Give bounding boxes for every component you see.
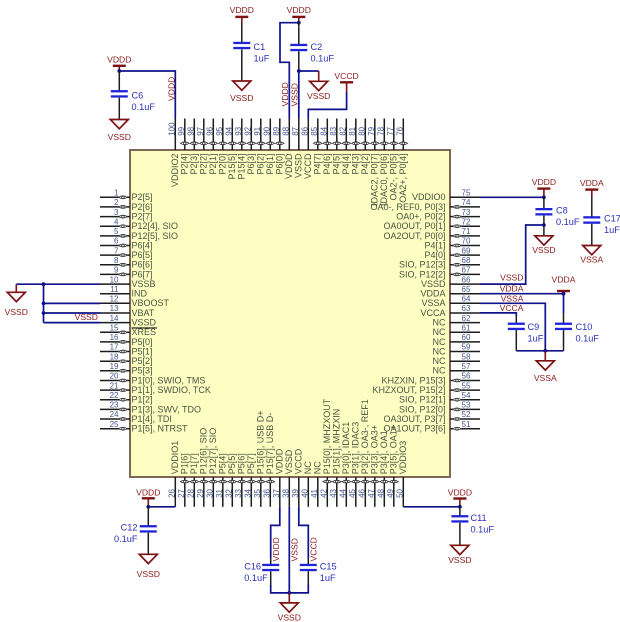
svg-text:57: 57 (462, 362, 471, 371)
svg-text:P6[3]: P6[3] (246, 154, 256, 175)
svg-text:P6[4]: P6[4] (132, 240, 153, 250)
svg-text:C8: C8 (556, 206, 568, 216)
svg-text:29: 29 (196, 488, 205, 497)
power VDDD (above C1) (230, 5, 254, 23)
svg-text:VCCD: VCCD (294, 448, 304, 474)
pin 7 P6[5] (left) (100, 246, 153, 260)
svg-text:P15[5]: P15[5] (227, 154, 237, 180)
pin 43 P15[1], MHZXIN (bottom) (329, 409, 342, 507)
svg-text:82: 82 (339, 126, 348, 135)
svg-text:P2[4]: P2[4] (180, 154, 190, 175)
ground VSSA (below C9/C10) (534, 351, 557, 383)
svg-text:62: 62 (462, 314, 471, 323)
svg-text:79: 79 (367, 126, 376, 135)
pin 76 OA2+, P0[4] (top) (396, 119, 409, 203)
svg-text:61: 61 (462, 324, 471, 333)
svg-text:VSSD: VSSD (448, 555, 471, 565)
svg-text:P1[0], SWIO, TMS: P1[0], SWIO, TMS (132, 375, 206, 385)
svg-text:P2[5]: P2[5] (132, 192, 153, 202)
svg-text:76: 76 (396, 126, 405, 135)
svg-text:VSSD: VSSD (532, 245, 555, 255)
pin 57 NC (right) (433, 362, 481, 376)
svg-text:97: 97 (196, 126, 205, 135)
svg-text:33: 33 (234, 488, 243, 497)
svg-text:C1: C1 (254, 42, 266, 52)
pin 2 P2[6] (left) (100, 198, 153, 212)
svg-text:IND: IND (132, 289, 148, 299)
wire C10 bottom to VSSA node (545, 350, 563, 352)
svg-text:VDDIO2: VDDIO2 (170, 154, 180, 188)
svg-text:NC: NC (433, 346, 446, 356)
power VDDD (right, above C8) (532, 177, 556, 197)
svg-text:VSSA: VSSA (501, 293, 524, 303)
svg-text:53: 53 (462, 401, 471, 410)
wire left ground bus vertical (43, 284, 45, 322)
pin 50 VDDIO3 (bottom) (396, 441, 409, 507)
svg-text:0.1uF: 0.1uF (132, 102, 156, 112)
svg-text:C17: C17 (604, 214, 620, 224)
ground VSSD (top-middle) (307, 71, 330, 101)
svg-text:NC: NC (313, 461, 323, 474)
pin 65 VDDA (right) (420, 285, 480, 299)
svg-text:P4[7]: P4[7] (313, 154, 323, 175)
svg-text:P4[4]: P4[4] (341, 154, 351, 175)
svg-text:19: 19 (110, 362, 119, 371)
svg-text:P6[1]: P6[1] (265, 154, 275, 175)
svg-text:VCCD: VCCD (303, 153, 313, 179)
svg-text:OA0OUT, P0[1]: OA0OUT, P0[1] (383, 221, 445, 231)
svg-text:25: 25 (110, 420, 119, 429)
C16 value 0.1uF (244, 562, 268, 584)
C12 value 0.1uF (114, 523, 138, 545)
svg-text:80: 80 (358, 126, 367, 135)
pin 23 P1[3], SWV, TDO (left) (100, 401, 201, 415)
capacitor C16 (262, 558, 279, 585)
svg-text:46: 46 (358, 488, 367, 497)
pin 96 P2[1] (top) (206, 119, 219, 175)
pin 5 P12[5], SIO (left) (100, 227, 178, 241)
svg-text:1uF: 1uF (320, 573, 336, 583)
svg-text:9: 9 (114, 266, 119, 275)
wire pin 38 VSSD rail (288, 507, 290, 593)
pin 53 SIO, P12[0] (right) (399, 401, 480, 415)
svg-text:P1[1], SWDIO, TCK: P1[1], SWDIO, TCK (132, 385, 211, 395)
pin 61 NC (right) (433, 324, 481, 338)
pin 90 P6[1] (top) (263, 119, 276, 175)
junction bottom VSSD node (287, 591, 291, 595)
svg-text:30: 30 (206, 488, 215, 497)
pin 85 P4[7] (top) (310, 119, 323, 175)
wire pin 39 VCCD rail (299, 507, 309, 558)
svg-text:55: 55 (462, 381, 471, 390)
svg-text:95: 95 (215, 126, 224, 135)
junction VDDD/C11 (458, 505, 462, 509)
pin 28 P1[7] (bottom) (187, 453, 200, 507)
net label VSSA (pin 64 wire) (501, 293, 524, 303)
svg-text:VBAT: VBAT (132, 308, 155, 318)
svg-text:VDDD: VDDD (230, 5, 254, 15)
svg-text:86: 86 (301, 126, 310, 135)
svg-text:83: 83 (329, 126, 338, 135)
pin 48 P3[4], OA1- (bottom) (377, 427, 390, 507)
svg-text:48: 48 (377, 488, 386, 497)
svg-text:VCCA: VCCA (420, 308, 445, 318)
pin 24 P1[4], TDI (left) (100, 410, 172, 424)
svg-text:P5[2]: P5[2] (132, 356, 153, 366)
pin 92 P6[3] (top) (244, 119, 257, 175)
svg-text:45: 45 (348, 488, 357, 497)
svg-text:VDDIO0: VDDIO0 (412, 192, 446, 202)
svg-text:VSSA: VSSA (534, 373, 557, 383)
svg-text:VCCD: VCCD (309, 537, 319, 561)
svg-text:VSSA: VSSA (580, 255, 603, 265)
junction VDDA bar (562, 292, 566, 296)
svg-text:91: 91 (253, 126, 262, 135)
pin 86 VCCD (top) (301, 119, 314, 180)
svg-text:P5[4]: P5[4] (218, 453, 228, 474)
pin 67 SIO, P12[2] (right) (399, 266, 480, 280)
svg-text:11: 11 (110, 285, 119, 294)
wire pin 37 VDDD rail (271, 507, 280, 558)
pin 83 P4[5] (top) (329, 119, 342, 175)
svg-text:51: 51 (462, 420, 471, 429)
pin 79 IDAC2, P0[7] (top) (367, 119, 380, 207)
svg-text:P3[0], IDAC1: P3[0], IDAC1 (341, 422, 351, 475)
svg-text:15: 15 (110, 324, 119, 333)
power VDDD (above C2) (287, 5, 311, 23)
ground VSSD (below C6) (108, 120, 131, 143)
svg-text:0.1uF: 0.1uF (576, 334, 600, 344)
pin 16 P5[0] (left) (100, 333, 153, 347)
svg-text:P5[0]: P5[0] (132, 337, 153, 347)
svg-text:VSSD: VSSD (75, 312, 98, 322)
svg-text:32: 32 (225, 488, 234, 497)
svg-text:P4[5]: P4[5] (332, 154, 342, 175)
svg-text:0.1uF: 0.1uF (471, 525, 495, 535)
junction VSSA node (543, 349, 547, 353)
pin 97 P2[2] (top) (196, 119, 209, 175)
pin 95 P2[0] (top) (215, 119, 228, 175)
junction pin10 bus (42, 282, 46, 286)
svg-text:37: 37 (272, 488, 281, 497)
svg-text:0.1uF: 0.1uF (114, 534, 138, 544)
pin 6 P6[4] (left) (100, 237, 153, 251)
C10 value 0.1uF (576, 322, 600, 344)
svg-text:VSSD: VSSD (307, 91, 330, 101)
svg-text:26: 26 (168, 488, 177, 497)
pin 44 P3[0], IDAC1 (bottom) (339, 422, 352, 507)
pin 4 P12[4], SIO (left) (100, 217, 178, 231)
pin 38 VSSD (bottom) (282, 449, 295, 507)
svg-text:P5[3]: P5[3] (132, 366, 153, 376)
svg-text:VDDD: VDDD (166, 77, 176, 101)
wire to pin 13 VBAT (44, 312, 101, 314)
capacitor C11 (451, 507, 468, 546)
svg-text:VSSD: VSSD (132, 318, 157, 328)
junction VDDD/C2 top (297, 21, 301, 25)
capacitor C9 (508, 316, 525, 351)
svg-text:21: 21 (110, 381, 119, 390)
svg-text:P3[2], OA3-, REF1: P3[2], OA3-, REF1 (360, 399, 370, 474)
capacitor C15 (300, 558, 317, 585)
pin 51 OA1OUT, P3[6] (right) (383, 420, 480, 434)
svg-text:VSSA: VSSA (421, 298, 445, 308)
pin 14 VSSD (left) (100, 314, 157, 328)
svg-text:VSSB: VSSB (132, 279, 156, 289)
svg-text:65: 65 (462, 285, 471, 294)
net label VSSD (rotated, at pin 87 rail) (290, 83, 300, 106)
pin 12 VBOOST (left) (100, 295, 170, 309)
wire pin 64 VSSA down (480, 303, 545, 351)
pin 25 P1[5], NTRST (left) (100, 420, 188, 434)
svg-text:P3[5], OA1+: P3[5], OA1+ (389, 425, 399, 474)
svg-text:84: 84 (320, 126, 329, 135)
svg-text:0.1uF: 0.1uF (311, 53, 335, 63)
svg-text:VDDD: VDDD (284, 153, 294, 179)
pin 19 P5[3] (left) (100, 362, 153, 376)
C17 value 1uF (604, 214, 620, 236)
svg-text:IDAC0, P0[6]: IDAC0, P0[6] (379, 154, 389, 207)
pin 47 P3[3], OA3+ (bottom) (367, 425, 380, 507)
junction C2 bottom / VSSD (297, 69, 301, 73)
svg-text:63: 63 (462, 304, 471, 313)
pin 78 IDAC0, P0[6] (top) (377, 119, 390, 207)
svg-text:52: 52 (462, 410, 471, 419)
power VDDD (above C11) (448, 488, 472, 507)
svg-text:74: 74 (462, 198, 471, 207)
svg-text:71: 71 (462, 227, 471, 236)
ground VSSD (below C1) (230, 81, 253, 103)
pin 36 P15[7], USB D- (bottom) (263, 413, 276, 507)
svg-text:44: 44 (339, 488, 348, 497)
svg-text:93: 93 (234, 126, 243, 135)
pin 33 P5[6] (bottom) (234, 453, 247, 507)
pin 63 VCCA (right) (420, 304, 480, 318)
svg-text:OA3OUT, P3[7]: OA3OUT, P3[7] (383, 414, 445, 424)
svg-text:10: 10 (110, 275, 119, 284)
svg-text:VSSD: VSSD (137, 569, 160, 579)
pin 21 P1[1], SWDIO, TCK (left) (100, 381, 211, 395)
svg-text:VSSD: VSSD (290, 538, 300, 561)
svg-text:P1[4], TDI: P1[4], TDI (132, 414, 172, 424)
svg-text:P2[1]: P2[1] (208, 154, 218, 175)
power VDDD (above C12) (136, 487, 160, 506)
svg-text:P3[1], IDAC3: P3[1], IDAC3 (351, 422, 361, 475)
svg-text:P15[6], USB D+: P15[6], USB D+ (256, 411, 266, 475)
svg-text:VDDD: VDDD (448, 488, 472, 498)
svg-text:56: 56 (462, 372, 471, 381)
pin 89 P6[0] (top) (272, 119, 285, 175)
C6 value 0.1uF (132, 90, 156, 112)
svg-text:0.1uF: 0.1uF (244, 573, 268, 583)
svg-text:VBOOST: VBOOST (132, 298, 170, 308)
power VDDA (above C17) (580, 178, 604, 196)
svg-text:75: 75 (462, 189, 471, 198)
pin 73 OA0+, P0[2] (right) (396, 208, 480, 222)
capacitor C2 (290, 23, 307, 71)
svg-text:OA2OUT, P0[0]: OA2OUT, P0[0] (383, 231, 445, 241)
svg-text:73: 73 (462, 208, 471, 217)
svg-text:60: 60 (462, 333, 471, 342)
pin 31 P5[4] (bottom) (215, 453, 228, 507)
svg-text:NC: NC (303, 461, 313, 474)
pin 55 KHZXOUT, P15[2] (right) (372, 381, 480, 395)
net label VDDA (pin 65 wire) (500, 284, 524, 294)
svg-text:96: 96 (206, 126, 215, 135)
svg-text:P12[4], SIO: P12[4], SIO (132, 221, 179, 231)
capacitor C12 (140, 507, 157, 555)
C2 value 0.1uF (311, 42, 335, 64)
pin 22 P1[2] (left) (100, 391, 153, 405)
svg-text:85: 85 (310, 126, 319, 135)
svg-text:P2[7]: P2[7] (132, 212, 153, 222)
svg-text:SIO, P12[2]: SIO, P12[2] (399, 269, 446, 279)
pin 54 SIO, P12[1] (right) (399, 391, 480, 405)
svg-text:C11: C11 (471, 513, 487, 523)
svg-text:NC: NC (433, 366, 446, 376)
svg-text:42: 42 (320, 488, 329, 497)
svg-text:P1[7]: P1[7] (189, 453, 199, 474)
wire pin 26 VDDIO1 to VDDD (148, 506, 175, 508)
wire VDDD rail to pin 88 (280, 23, 299, 119)
svg-text:5: 5 (114, 227, 119, 236)
net label VCCD (rotated, C15 rail) (309, 537, 319, 561)
pin 26 VDDIO1 (bottom) (168, 441, 181, 507)
svg-text:VDDD: VDDD (275, 448, 285, 474)
pin 39 VCCD (bottom) (291, 448, 304, 507)
svg-text:88: 88 (282, 126, 291, 135)
svg-text:16: 16 (110, 333, 119, 342)
power VDDD (top-left) (107, 54, 131, 71)
svg-text:35: 35 (253, 488, 262, 497)
pin 98 P2[3] (top) (187, 119, 200, 175)
svg-text:P3[3], OA3+: P3[3], OA3+ (370, 425, 380, 474)
ground VSSA (below C17) (580, 246, 603, 265)
wire C16 bottom to VSSD node (271, 585, 290, 593)
svg-text:VSSD: VSSD (230, 93, 253, 103)
pin 10 VSSB (left) (100, 275, 156, 289)
svg-text:C2: C2 (311, 42, 323, 52)
pin 74 OA0-, REF0, P0[3] (right) (370, 198, 480, 212)
pin 59 NC (right) (433, 343, 481, 357)
pin 34 P5[7] (bottom) (244, 453, 257, 507)
svg-text:XRES: XRES (132, 327, 157, 337)
svg-text:P6[7]: P6[7] (132, 269, 153, 279)
svg-text:99: 99 (177, 126, 186, 135)
pin 35 P15[6], USB D+ (bottom) (253, 411, 266, 507)
pin 88 VDDD (top) (282, 119, 295, 180)
wire VCCD to pin 86 (308, 92, 346, 119)
pin 30 P12[7], SIO (bottom) (206, 428, 219, 507)
net label VSSD (pin 66 wire) (500, 273, 523, 283)
svg-text:50: 50 (396, 488, 405, 497)
svg-text:12: 12 (110, 295, 119, 304)
svg-text:27: 27 (177, 488, 186, 497)
C1 value 1uF (254, 42, 270, 64)
svg-text:1: 1 (114, 189, 119, 198)
svg-text:VDDD: VDDD (280, 82, 290, 106)
svg-text:VDDD: VDDD (271, 537, 281, 561)
C15 value 1uF (320, 562, 337, 584)
svg-text:NC: NC (433, 318, 446, 328)
svg-text:OA2+, P0[4]: OA2+, P0[4] (398, 154, 408, 203)
svg-text:P1[3], SWV, TDO: P1[3], SWV, TDO (132, 404, 202, 414)
svg-text:C9: C9 (528, 322, 540, 332)
junction pin75/VDDD/C8 (542, 195, 546, 199)
pin 3 P2[7] (left) (100, 208, 153, 222)
svg-text:P15[4]: P15[4] (237, 154, 247, 180)
svg-text:P15[7], USB D-: P15[7], USB D- (265, 413, 275, 475)
svg-text:VSSD: VSSD (290, 83, 300, 106)
pin 75 VDDIO0 (right) (412, 189, 480, 203)
pin 13 VBAT (left) (100, 304, 155, 318)
net label VSSD (rotated, pin 38 rail) (290, 538, 300, 561)
svg-text:SIO, P12[3]: SIO, P12[3] (399, 260, 446, 270)
svg-text:P5[6]: P5[6] (237, 453, 247, 474)
svg-text:SIO, P12[0]: SIO, P12[0] (399, 404, 446, 414)
svg-text:KHZXIN, P15[3]: KHZXIN, P15[3] (381, 375, 445, 385)
svg-text:P2[0]: P2[0] (218, 154, 228, 175)
svg-text:67: 67 (462, 266, 471, 275)
svg-text:34: 34 (244, 488, 253, 497)
svg-text:P6[0]: P6[0] (275, 154, 285, 175)
svg-text:100: 100 (168, 122, 177, 136)
svg-text:23: 23 (110, 401, 119, 410)
pin 71 OA2OUT, P0[0] (right) (383, 227, 480, 241)
svg-text:90: 90 (263, 126, 272, 135)
svg-text:NC: NC (433, 337, 446, 347)
pin 60 NC (right) (433, 333, 481, 347)
svg-text:P12[5], SIO: P12[5], SIO (132, 231, 179, 241)
wire pin 10 VSSB to ground (16, 283, 100, 285)
svg-text:VCCA: VCCA (500, 303, 524, 313)
IC U1 body (100-pin TQFP outline) (130, 150, 450, 477)
svg-text:P5[5]: P5[5] (227, 453, 237, 474)
svg-text:OA0+, P0[2]: OA0+, P0[2] (396, 212, 445, 222)
svg-text:P15[0], MHZXOUT: P15[0], MHZXOUT (322, 398, 332, 474)
svg-text:2: 2 (114, 198, 119, 207)
svg-text:OA2-, P0[5]: OA2-, P0[5] (389, 154, 399, 201)
pin 87 VSSD (top) (291, 119, 304, 179)
wire pin 75 to VDDD/C8 (480, 196, 544, 198)
svg-text:P5[7]: P5[7] (246, 453, 256, 474)
svg-text:VDDD: VDDD (287, 5, 311, 15)
pin 29 P12[6], SIO (bottom) (196, 428, 209, 507)
wire pin 65 VDDA to C10 (480, 294, 564, 314)
svg-text:69: 69 (462, 246, 471, 255)
svg-text:P3[4], OA1-: P3[4], OA1- (379, 427, 389, 474)
capacitor C8 (535, 197, 552, 236)
svg-text:4: 4 (114, 217, 119, 226)
svg-text:43: 43 (329, 488, 338, 497)
svg-text:6: 6 (114, 237, 119, 246)
svg-text:92: 92 (244, 126, 253, 135)
net label VSSD (left, pin 14 wire) (75, 312, 98, 322)
svg-text:31: 31 (215, 488, 224, 497)
svg-text:54: 54 (462, 391, 471, 400)
junction VDDD/C6 (117, 69, 121, 73)
svg-text:P4[1]: P4[1] (424, 240, 445, 250)
svg-text:P6[6]: P6[6] (132, 260, 153, 270)
capacitor C1 (233, 23, 250, 81)
svg-text:17: 17 (110, 343, 119, 352)
wire pin 63 VCCA to C9 (480, 313, 516, 316)
svg-text:VDDIO3: VDDIO3 (398, 441, 408, 475)
pin 49 P3[5], OA1+ (bottom) (386, 425, 399, 507)
pin 77 OA2-, P0[5] (top) (386, 119, 399, 201)
svg-text:38: 38 (282, 488, 291, 497)
svg-text:P4[3]: P4[3] (351, 154, 361, 175)
